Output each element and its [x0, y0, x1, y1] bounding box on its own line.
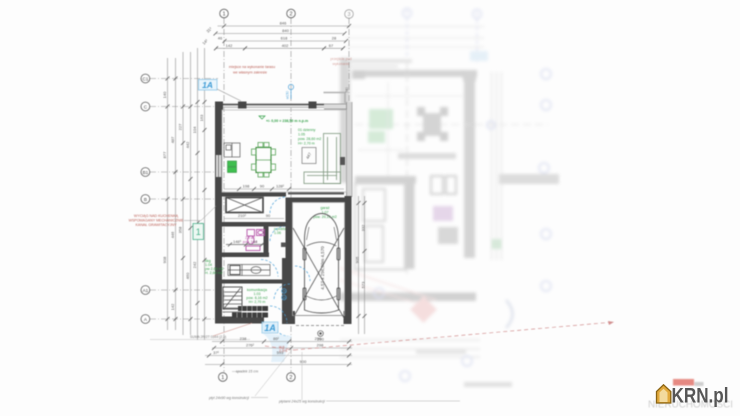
wc right wall [264, 227, 269, 253]
red annotation top right faded [330, 57, 351, 66]
svg-text:płyt 24x90 wg konstrukcji: płyt 24x90 wg konstrukcji [208, 396, 249, 400]
svg-text:90: 90 [260, 184, 265, 189]
door arc bath [261, 260, 278, 277]
svg-text:573: 573 [361, 281, 366, 288]
svg-text:148³: 148³ [233, 239, 242, 244]
svg-text:KANAŁ GRAWITACYJNY: KANAŁ GRAWITACYJNY [136, 223, 178, 227]
svg-text:142: 142 [170, 303, 175, 310]
level mark green [259, 116, 308, 123]
living room green label [298, 128, 321, 146]
svg-text:2,5%: 2,5% [279, 349, 288, 353]
svg-text:28: 28 [332, 36, 337, 41]
living room inner face [222, 110, 347, 192]
stairs [223, 287, 243, 312]
svg-text:905: 905 [355, 256, 360, 263]
svg-text:pow. 20,10 m2: pow. 20,10 m2 [313, 215, 336, 219]
top wall pier 1 [238, 102, 247, 109]
garage gate line [295, 315, 344, 317]
svg-text:142: 142 [226, 43, 233, 48]
svg-text:1: 1 [196, 227, 201, 237]
svg-text:446: 446 [170, 231, 175, 238]
door arc wc [270, 227, 285, 242]
green marker 1 [193, 224, 204, 240]
svg-text:104: 104 [192, 126, 197, 133]
door arc hall-garage [295, 266, 310, 281]
red dashed slope line [265, 321, 614, 350]
svg-text:227: 227 [178, 123, 183, 130]
bg left wall fragment [340, 58, 350, 183]
garage gate right pillar [344, 311, 352, 324]
axis2 blue marker [288, 84, 293, 99]
bg top wall [352, 70, 477, 77]
svg-text:01 dzienny: 01 dzienny [298, 128, 316, 132]
top wall right glass section [324, 104, 352, 109]
svg-text:1: 1 [222, 12, 225, 18]
top wall pier 2 [309, 102, 317, 109]
svg-text:25: 25 [282, 290, 286, 294]
svg-text:276²: 276² [246, 343, 255, 348]
svg-text:H= 2,70 m: H= 2,70 m [298, 142, 315, 146]
svg-text:198: 198 [243, 184, 250, 189]
svg-text:1A: 1A [264, 323, 276, 333]
svg-text:16: 16 [282, 296, 286, 300]
interior wall bath bottom [222, 280, 289, 284]
grid circle 3 top [345, 10, 354, 19]
svg-text:332: 332 [361, 224, 366, 231]
svg-text:we własnym zakresie: we własnym zakresie [233, 71, 267, 75]
garage inner face [293, 203, 345, 316]
entry door arc outside [274, 322, 288, 336]
wyciag red note [129, 206, 216, 227]
KRN logo red blob [673, 379, 704, 386]
bg dim chains [340, 339, 480, 341]
svg-text:442: 442 [185, 141, 190, 148]
grid circle A1 left [141, 286, 150, 295]
svg-text:A1: A1 [143, 288, 149, 293]
svg-text:miejsce na wykonanie tarasu: miejsce na wykonanie tarasu [229, 65, 275, 69]
svg-text:290: 290 [315, 336, 322, 341]
bg pink diagonal [340, 268, 436, 300]
bg top dim chains [345, 26, 484, 28]
interior dim line living [224, 184, 344, 192]
grid circle A left [141, 315, 150, 324]
svg-text:garaż: garaż [321, 206, 330, 210]
interior dim line wc [226, 239, 264, 247]
entry side wall [282, 258, 290, 324]
svg-text:3: 3 [347, 12, 350, 18]
bg bracket [506, 300, 513, 328]
entry mat bars [232, 306, 268, 318]
armchair with rotated label [302, 148, 316, 164]
svg-text:86²: 86² [273, 336, 279, 341]
bathroom counter [228, 265, 270, 276]
roof overhang line top right [324, 93, 346, 104]
svg-text:H. 2,60 m2: H. 2,60 m2 [205, 271, 223, 275]
garage green label [313, 206, 336, 219]
car [303, 214, 340, 314]
top wall corner pier left [215, 102, 223, 111]
svg-text:2: 2 [289, 375, 292, 381]
svg-text:877: 877 [162, 151, 167, 158]
svg-text:740: 740 [345, 87, 349, 93]
garage top wall [286, 198, 352, 203]
svg-text:487: 487 [170, 136, 175, 143]
bg bottom wall [340, 293, 476, 302]
kitchen counter [224, 143, 240, 157]
grid circle 1 top [220, 9, 229, 18]
svg-text:1A: 1A [202, 80, 213, 90]
bg counter line [398, 153, 456, 159]
grid axis horizontal lines [150, 79, 218, 320]
svg-text:KRN.pl: KRN.pl [672, 385, 729, 408]
svg-text:B1: B1 [143, 170, 149, 175]
bg interior wall v [405, 176, 415, 269]
wall left [215, 102, 222, 322]
grid circle B left [141, 195, 150, 204]
grid circle B1 left [141, 168, 150, 177]
garage cross [293, 228, 344, 318]
bg interior wall h [355, 176, 416, 184]
door arc corridor [270, 197, 286, 213]
svg-text:840: 840 [282, 28, 289, 33]
garage gate left pillar [282, 311, 295, 324]
top dimension chain [201, 21, 351, 51]
wc green note [274, 227, 286, 235]
garage left wall [286, 198, 293, 325]
svg-text:1.05: 1.05 [298, 133, 305, 137]
grid circle 1 bottom [219, 373, 228, 382]
bg pink roof mark [410, 296, 437, 323]
svg-text:37²: 37² [213, 350, 219, 355]
hall green text [246, 288, 267, 304]
bg fixtures [363, 189, 385, 221]
faded background floor plan [340, 9, 559, 388]
label 1A top [199, 80, 242, 102]
wc fixtures magenta [246, 230, 265, 251]
grid circle 2 top [287, 9, 296, 18]
wall right upper glass [347, 102, 353, 197]
svg-text:wykonanie: wykonanie [333, 62, 350, 66]
svg-text:w150: w150 [286, 91, 290, 99]
sofa [304, 134, 341, 184]
interior dim line mid [224, 213, 284, 219]
svg-text:298: 298 [317, 343, 324, 348]
svg-text:67: 67 [329, 43, 334, 48]
survey point [318, 331, 324, 337]
grid circle C left [141, 102, 150, 111]
bottom leader notes [208, 352, 460, 404]
bg kitchen green [369, 109, 393, 129]
svg-text:1: 1 [221, 375, 224, 381]
bottom dimension chains [205, 336, 352, 367]
svg-text:238: 238 [240, 336, 247, 341]
svg-text:128²: 128² [276, 184, 285, 189]
svg-text:242: 242 [192, 261, 197, 268]
washer [230, 266, 240, 275]
bg right wall [464, 70, 475, 258]
KRN logo house icon [657, 385, 671, 403]
suma note [150, 323, 252, 340]
label 1A bottom [262, 322, 278, 333]
svg-text:2: 2 [289, 12, 292, 18]
crossed duct rect [226, 198, 263, 213]
bg title block smudge [499, 174, 559, 184]
svg-text:44: 44 [253, 239, 258, 244]
svg-text:163: 163 [199, 114, 204, 121]
bg axis dashed [406, 62, 408, 275]
bg interior texture lines [358, 149, 404, 151]
svg-text:31²: 31² [205, 26, 213, 34]
bg room outline [355, 184, 405, 270]
svg-text:płytami 24x25 wg konstrukcji: płytami 24x25 wg konstrukcji [278, 400, 325, 404]
grid circle 2 bottom [287, 373, 296, 382]
red small note bottom [279, 345, 288, 353]
svg-text:90: 90 [266, 213, 271, 218]
svg-text:358: 358 [178, 226, 183, 233]
svg-text:pow. 28,60 m2: pow. 28,60 m2 [298, 137, 321, 141]
svg-text:SUMA 2R/2T 0344 (2,5): SUMA 2R/2T 0344 (2,5) [190, 335, 226, 339]
left green note [205, 259, 224, 275]
svg-text:14²: 14² [201, 38, 209, 46]
wall right garage [345, 196, 352, 312]
svg-text:908: 908 [162, 256, 167, 263]
wc labels magenta [243, 236, 258, 244]
top wall window band [222, 103, 324, 108]
svg-text:4,57 x 296,09m 4,570: 4,57 x 296,09m 4,570 [320, 246, 325, 290]
svg-text:210²: 210² [238, 213, 247, 218]
hall blue markers [282, 289, 287, 300]
bg blue circles [374, 69, 551, 381]
living-garage window line [288, 192, 344, 195]
left dimension chains [162, 48, 207, 340]
grid circle C1 left [141, 74, 150, 83]
red annotation terrace text [229, 65, 275, 75]
dining table [252, 143, 276, 178]
radiator right [340, 157, 345, 165]
svg-text:1.06: 1.06 [274, 231, 281, 235]
svg-text:WYCIĄG NAD KUCHENKĄ: WYCIĄG NAD KUCHENKĄ [134, 214, 179, 218]
svg-text:846: 846 [280, 21, 287, 26]
svg-text:402: 402 [282, 43, 289, 48]
entry door arc [270, 306, 287, 323]
svg-text:618: 618 [281, 36, 288, 41]
interior wall below living [222, 193, 286, 197]
bg table [423, 113, 441, 136]
interior wall wc bottom [222, 253, 269, 258]
svg-text:H= 2,70 m: H= 2,70 m [249, 300, 266, 304]
svg-text:+/- 0,00 = 238,50 m n.p.m: +/- 0,00 = 238,50 m n.p.m [266, 119, 308, 123]
svg-text:WSPOMAGANY MECHANICZNIE: WSPOMAGANY MECHANICZNIE [129, 219, 184, 223]
svg-text:460: 460 [185, 272, 190, 279]
svg-text:przejście pod: przejście pod [330, 57, 351, 61]
kitchen appliances green [228, 161, 237, 173]
svg-text:140: 140 [162, 91, 167, 98]
door arc hall2 [274, 284, 290, 300]
wall bottom left [215, 317, 264, 324]
svg-text:447: 447 [305, 151, 313, 160]
interior wall wc top [222, 222, 286, 227]
blue shading below entry [262, 333, 292, 362]
garage gate dashed swing [296, 325, 344, 327]
svg-text:46: 46 [218, 36, 223, 41]
svg-text:B: B [144, 197, 147, 202]
grid axis vertical lines [224, 18, 349, 372]
main plan [129, 9, 614, 403]
svg-text:900: 900 [300, 359, 307, 364]
svg-text:C1: C1 [142, 77, 148, 82]
wc radiator [281, 243, 286, 248]
right dim chain [355, 196, 367, 334]
window left [216, 155, 221, 177]
